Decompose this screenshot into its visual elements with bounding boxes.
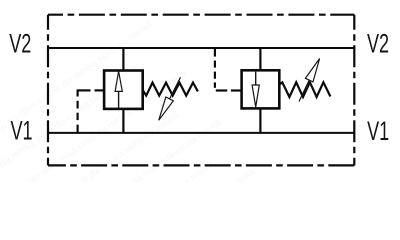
relief valve RV2 body — [242, 70, 280, 108]
port label V1 left — [11, 115, 33, 146]
wire: V2 port line — [48, 47, 354, 49]
port label V2 left — [9, 28, 31, 59]
relief valve RV1 body — [104, 71, 143, 109]
spring of RV2 — [280, 82, 331, 97]
port label V2 right — [367, 28, 389, 59]
manifold enclosure border: right edge (chain line) — [353, 15, 355, 166]
wire: valve RV2 bottom connection — [259, 108, 261, 132]
svg-text:V1: V1 — [11, 115, 33, 146]
adjustment arrow of RV2 (points up-right) — [299, 59, 320, 102]
wire: valve RV1 bottom connection — [122, 109, 124, 133]
manifold enclosure border: bottom edge (chain line) — [48, 164, 354, 166]
relief valve RV2 flow arrow (down) — [252, 72, 259, 107]
manifold enclosure border: top edge (chain line) — [48, 14, 354, 16]
svg-text:V1: V1 — [367, 115, 389, 146]
adjustment arrow of RV1 (points down-left) — [159, 77, 181, 120]
watermark — [0, 19, 291, 240]
svg-text:sklep dla rolnika sklep dla: sklep dla rolnika sklep dla rolnika skle… — [88, 166, 256, 182]
port label V1 right — [367, 115, 389, 146]
wire: valve RV1 top connection — [122, 48, 124, 71]
svg-text:V2: V2 — [9, 28, 31, 59]
manifold enclosure border: left edge (chain line) — [47, 15, 49, 166]
spring of RV1 — [143, 83, 198, 96]
wire: V1 port line — [48, 132, 354, 134]
svg-text:V2: V2 — [367, 28, 389, 59]
wire: valve RV2 top connection — [259, 48, 261, 70]
relief valve RV1 flow arrow (up) — [115, 71, 122, 108]
pilot line of RV1 (dashed, from valve left side to V1 line) — [77, 90, 104, 133]
pilot line of RV2 (dashed, from valve left side to V2 line) — [215, 49, 241, 91]
